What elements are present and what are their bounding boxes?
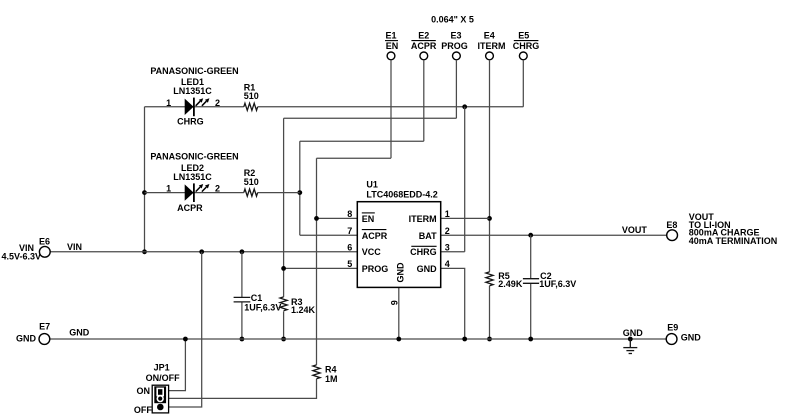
svg-text:E7: E7 — [39, 321, 50, 331]
junction VIN JP1-OFF — [199, 249, 204, 254]
junction pin9 GND — [396, 337, 401, 342]
wire pin4 GND drop — [441, 268, 465, 339]
svg-text:E8: E8 — [666, 220, 677, 230]
wire C1 top lead — [241, 252, 243, 298]
pin 7 ACPR — [347, 226, 388, 241]
node VOUT net label — [622, 225, 648, 235]
junction VIN left loop — [142, 249, 147, 254]
junction VIN C1 — [240, 249, 245, 254]
junction EN pin8 — [314, 216, 319, 221]
wire JP1 ON branch — [166, 339, 185, 391]
jumper JP1 — [134, 363, 180, 415]
wire E5 leg down — [522, 60, 524, 107]
pin 5 PROG — [347, 259, 388, 274]
junction LED2 left — [142, 190, 147, 195]
svg-text:510: 510 — [244, 91, 259, 101]
junction C1 GND — [240, 337, 245, 342]
svg-text:4: 4 — [445, 259, 450, 269]
terminal E2 — [411, 30, 437, 60]
wire left loop vertical — [144, 107, 146, 252]
wire E1 leg down — [390, 60, 392, 158]
wire JP1 OFF branch — [164, 252, 202, 407]
resistor R2 — [244, 168, 259, 196]
svg-text:LN1351C: LN1351C — [173, 86, 212, 96]
wire C1 bottom lead — [241, 302, 243, 339]
node GND net label left — [69, 328, 90, 338]
LED LED1 — [150, 66, 238, 127]
pin 9 number — [390, 300, 400, 305]
svg-text:4.5V-6.3V: 4.5V-6.3V — [2, 252, 42, 262]
svg-text:1M: 1M — [325, 374, 338, 384]
svg-text:1: 1 — [445, 209, 450, 219]
resistor R4 — [313, 365, 338, 385]
svg-text:E9: E9 — [667, 323, 678, 333]
svg-text:GND: GND — [396, 262, 406, 283]
svg-text:ON/OFF: ON/OFF — [146, 373, 180, 383]
svg-text:VCC: VCC — [362, 247, 382, 257]
svg-text:CHRG: CHRG — [513, 41, 540, 51]
terminal E7 GND — [16, 321, 50, 344]
svg-text:OFF: OFF — [134, 405, 152, 415]
svg-text:CHRG: CHRG — [177, 117, 204, 127]
node VIN net label — [67, 242, 82, 252]
terminal E3 — [441, 30, 468, 60]
junction BAT C2 — [528, 233, 533, 238]
wire E4 leg down through ITERM to R5 — [489, 60, 491, 272]
svg-text:CHRG: CHRG — [410, 247, 437, 257]
wire CHRG vertical to pin3 — [464, 107, 466, 252]
svg-text:ACPR: ACPR — [362, 231, 388, 241]
wire R4 bottom to JP1 — [166, 379, 317, 399]
wire EN vertical to R4 — [316, 158, 318, 365]
resistor R1 — [244, 82, 259, 110]
wire BAT VOUT rail — [441, 234, 667, 236]
svg-text:VIN: VIN — [67, 242, 82, 252]
resistor R5 — [486, 271, 523, 289]
junction ACPR LED2 — [297, 190, 302, 195]
pin 1 ITERM — [409, 209, 450, 224]
svg-text:2.49K: 2.49K — [498, 279, 523, 289]
wire pin7 ACPR stub — [300, 234, 358, 236]
terminal E6 VIN — [2, 236, 51, 261]
svg-text:1: 1 — [166, 184, 171, 194]
svg-text:GND: GND — [681, 333, 702, 343]
wire PROG horizontal segment — [284, 117, 457, 119]
svg-text:E2: E2 — [418, 30, 429, 40]
wire CHRG top rail left of R1 — [145, 106, 244, 108]
ground symbol — [623, 339, 637, 354]
wire CHRG top rail right of R1 — [258, 106, 524, 108]
svg-text:3: 3 — [445, 243, 450, 253]
svg-text:E4: E4 — [484, 30, 495, 40]
wire VIN rail — [50, 251, 357, 253]
wire pin9 GND drop — [398, 287, 400, 339]
junction GND symbol — [628, 337, 633, 342]
svg-text:ON: ON — [137, 386, 151, 396]
svg-text:GND: GND — [69, 328, 90, 338]
pin 2 BAT — [419, 226, 450, 241]
svg-text:BAT: BAT — [419, 231, 437, 241]
svg-text:9: 9 — [390, 300, 400, 305]
svg-text:LTC4068EDD-4.2: LTC4068EDD-4.2 — [366, 189, 437, 199]
label VOUT annotation block — [689, 212, 778, 246]
svg-text:1: 1 — [166, 98, 171, 108]
svg-text:ACPR: ACPR — [411, 41, 437, 51]
svg-text:40mA TERMINATION: 40mA TERMINATION — [689, 236, 778, 246]
LED LED2 — [150, 152, 238, 213]
wire LED2 rail right of R2 — [258, 192, 300, 194]
pin 8 EN — [347, 209, 375, 224]
svg-text:8: 8 — [347, 209, 352, 219]
svg-text:VOUT: VOUT — [622, 225, 648, 235]
wire pin3 CHRG stub — [441, 251, 465, 253]
label 0.064" X 5 — [431, 15, 474, 25]
svg-text:E6: E6 — [39, 236, 50, 246]
junction PROG pin5 — [281, 266, 286, 271]
svg-text:GND: GND — [623, 328, 644, 338]
svg-text:E1: E1 — [385, 30, 396, 40]
junction C2 GND — [528, 337, 533, 342]
svg-text:0.064" X 5: 0.064" X 5 — [431, 15, 474, 25]
svg-text:ITERM: ITERM — [478, 41, 506, 51]
svg-text:6: 6 — [347, 243, 352, 253]
junction R3 GND — [281, 337, 286, 342]
wire ACPR vertical — [299, 141, 301, 235]
terminal E1 — [385, 30, 398, 60]
junction JP1-ON GND — [183, 337, 188, 342]
terminal E5 — [513, 30, 540, 60]
wire LED2 rail left of R2 — [145, 192, 244, 194]
svg-text:5: 5 — [347, 259, 352, 269]
svg-text:ACPR: ACPR — [177, 203, 203, 213]
wire E3 leg down — [455, 60, 457, 118]
capacitor C1 — [234, 293, 282, 313]
pin GND exposed pad label — [396, 262, 406, 283]
svg-text:ITERM: ITERM — [409, 214, 437, 224]
wire EN horizontal segment — [317, 157, 392, 159]
svg-text:EN: EN — [362, 214, 375, 224]
op-amp U1 LTC4068EDD-4.2 body — [357, 179, 440, 287]
svg-text:PROG: PROG — [362, 264, 389, 274]
wire pin5 PROG stub — [284, 267, 358, 269]
junction R5 GND — [487, 337, 492, 342]
wire R3 bottom to GND rail — [283, 311, 285, 339]
wire GND rail — [50, 338, 666, 340]
svg-text:7: 7 — [347, 226, 352, 236]
wire C2 top lead — [530, 235, 532, 279]
pin 3 CHRG — [410, 243, 450, 258]
wire ACPR horizontal segment — [300, 140, 424, 142]
svg-text:EN: EN — [386, 41, 399, 51]
svg-text:2: 2 — [445, 226, 450, 236]
svg-text:1UF,6.3V: 1UF,6.3V — [539, 279, 576, 289]
svg-text:PANASONIC-GREEN: PANASONIC-GREEN — [150, 152, 238, 162]
svg-text:E5: E5 — [518, 30, 529, 40]
terminal E9 GND — [666, 323, 701, 345]
svg-text:GND: GND — [16, 334, 37, 344]
capacitor C2 — [523, 271, 576, 289]
svg-text:JP1: JP1 — [154, 363, 170, 373]
svg-text:2: 2 — [215, 98, 220, 108]
node GND net label right — [623, 328, 644, 338]
junction pin4 GND — [462, 337, 467, 342]
pin 4 GND — [417, 259, 450, 274]
wire E2 leg down — [423, 60, 425, 141]
wire R5 bottom to GND rail — [489, 286, 491, 339]
svg-text:1UF,6.3V: 1UF,6.3V — [244, 303, 281, 313]
wire PROG vertical to R3 — [283, 118, 285, 297]
svg-text:1.24K: 1.24K — [291, 305, 316, 315]
terminal E8 VOUT — [666, 220, 677, 241]
terminal E4 — [478, 30, 506, 60]
svg-text:E3: E3 — [450, 30, 461, 40]
resistor R3 — [280, 297, 316, 315]
wire pin1 ITERM stub — [441, 217, 490, 219]
svg-text:LN1351C: LN1351C — [173, 172, 212, 182]
svg-text:GND: GND — [417, 264, 438, 274]
wire pin8 EN stub — [317, 217, 358, 219]
wire C2 bottom lead — [530, 283, 532, 339]
junction CHRG rail — [462, 104, 467, 109]
svg-text:U1: U1 — [366, 179, 378, 189]
svg-text:510: 510 — [244, 177, 259, 187]
svg-text:PANASONIC-GREEN: PANASONIC-GREEN — [150, 66, 238, 76]
svg-text:C1: C1 — [251, 293, 263, 303]
svg-text:R4: R4 — [325, 365, 337, 375]
junction ITERM pin1 — [487, 216, 492, 221]
svg-text:2: 2 — [215, 184, 220, 194]
pin 6 VCC — [347, 243, 381, 258]
svg-text:PROG: PROG — [441, 41, 468, 51]
